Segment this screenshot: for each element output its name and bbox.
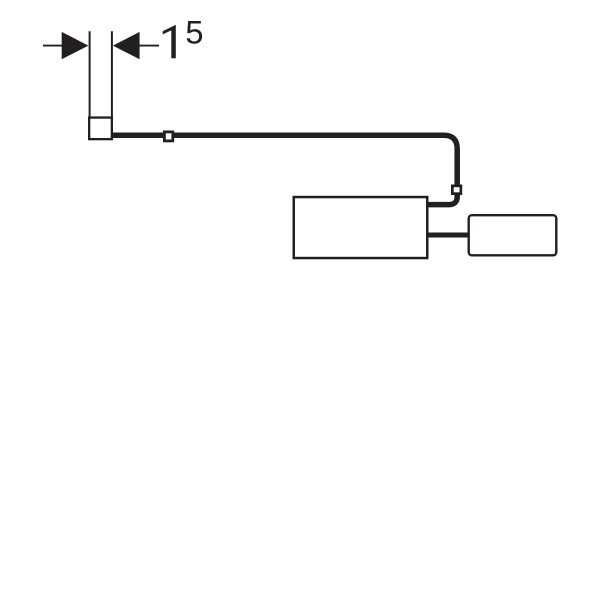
pipe line left <box>89 31 91 118</box>
dimension arrow right tail <box>139 45 160 47</box>
pipe collar box <box>89 118 112 140</box>
connecting line between boxes <box>429 233 468 238</box>
cable connector on horizontal wire <box>164 132 172 141</box>
dimension label superscript digit 5 <box>187 21 203 44</box>
dimension label digit 1 <box>163 25 176 59</box>
power supply box (small rounded rectangle) <box>469 215 557 255</box>
pipe line right <box>111 31 113 118</box>
control box (large rectangle) <box>294 197 428 258</box>
dimension arrow left head <box>62 32 89 59</box>
dimension arrow right head <box>113 32 140 59</box>
cable connector at corner <box>452 186 461 194</box>
dimension arrow left tail <box>43 45 63 47</box>
wire (cable from pipe collar to control box) <box>113 135 457 204</box>
